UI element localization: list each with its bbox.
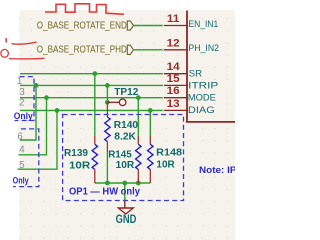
resistor R139 top pin [94,135,96,144]
wire ITRIP row [20,84,163,86]
wire R139 drop [94,74,96,136]
wire TP/R140 drop [106,85,108,102]
svg-text:11: 11 [167,13,180,25]
svg-text:GND: GND [116,213,137,226]
ground symbol pin [124,200,126,208]
wire DIAG row [20,109,163,111]
wire pin5 stub [18,110,58,169]
pin 11 line [164,25,188,27]
resistor R140 top pin [106,102,108,117]
svg-text:10R: 10R [156,160,175,171]
IC U1 body bottom [186,121,235,123]
junction rail-GND [122,181,127,186]
dashed box HW Only (pins 6,4,5) [13,129,39,187]
svg-text:DIAG: DIAG [188,105,215,116]
hier label END shape [127,21,133,30]
svg-text:R148: R148 [156,148,182,159]
svg-text:1: 1 [17,76,23,87]
junction wire4-pin5 [55,108,60,113]
svg-text:EN_IN1: EN_IN1 [188,19,218,30]
hier label PHD shape [127,45,133,54]
wire R140 lower link [106,152,108,183]
svg-text:10R: 10R [116,160,135,171]
junction wire1-R139 [92,71,97,76]
wire bottom rail [95,182,151,184]
resistor R145 body [136,144,141,169]
svg-text:R145: R145 [108,150,132,161]
wire EN_IN1 [133,25,162,27]
wire GND stub [124,183,126,200]
svg-text:MODE: MODE [188,93,216,104]
junction wire2-R140 [105,83,110,88]
svg-text:3: 3 [19,87,25,98]
junction wire4-R148 [148,108,153,113]
junction wire3-R145 [136,95,141,100]
IC U1 body edge [186,11,188,122]
svg-text:O_BASE_ROTATE_PHD: O_BASE_ROTATE_PHD [37,45,127,56]
annotation logic 1 tick [5,38,7,42]
annotation logic 0 circle [1,49,9,57]
svg-text:8.2K: 8.2K [114,132,136,143]
svg-text:16: 16 [167,85,180,97]
annotation logic 0 line [9,57,45,60]
resistor R140 body [105,117,110,142]
wire MODE row [20,97,163,99]
svg-text:O_BASE_ROTATE_END: O_BASE_ROTATE_END [37,20,127,31]
junction rail-R145 [136,181,141,186]
junction rail-R140 [105,181,110,186]
junction wire2-pin6 [34,83,39,88]
resistor R148 top pin [149,135,151,144]
svg-text:ITRIP: ITRIP [188,80,218,91]
resistor R145 top pin [137,135,139,144]
resistor R139 body [92,144,97,169]
pin 16 line [164,97,188,99]
wire PH_IN2 [133,49,162,51]
svg-text:TP12: TP12 [114,87,138,98]
resistor R139 bottom pin [94,170,96,184]
svg-text:Only: Only [14,111,33,121]
wire pin4 stub [19,98,47,155]
annotation logic 1 line [12,42,37,44]
pin 14 line [164,73,188,75]
pin 12 line [164,49,188,51]
svg-text:SR: SR [189,68,203,79]
resistor R148 body [148,144,153,169]
dashed box HW Only (pins 1,3,2) [15,77,35,121]
wire R145 drop [137,98,139,136]
svg-text:10R: 10R [69,160,91,171]
svg-text:Note: IP: Note: IP [199,165,235,176]
annotation square wave [45,4,124,15]
test point TP12 pin [107,101,119,103]
junction TP12 tap [105,100,110,105]
svg-text:2: 2 [19,98,25,109]
svg-text:4: 4 [19,144,25,155]
dashed box OP1 HW only [63,115,184,201]
svg-text:PH_IN2: PH_IN2 [188,43,219,54]
wire pin6 stub [20,85,36,140]
test point TP12 circle [119,99,126,106]
resistor R148 bottom pin [149,170,151,184]
svg-text:Only: Only [13,176,29,186]
junction wire3-pin4 [44,95,49,100]
wire SR row [20,73,163,75]
svg-text:OP1 — HW only: OP1 — HW only [69,187,141,198]
wire R148 drop [149,110,151,135]
pin 13 line [164,109,188,111]
svg-text:15: 15 [167,73,180,85]
svg-text:R140: R140 [114,120,139,131]
resistor R145 bottom pin [137,170,139,184]
pin 15 line [164,84,188,86]
svg-text:14: 14 [167,61,181,73]
svg-text:R139: R139 [64,148,88,159]
svg-text:13: 13 [167,98,180,110]
ground symbol triangle [118,208,133,214]
svg-text:12: 12 [167,37,180,49]
resistor R140 bottom pin [106,142,108,153]
